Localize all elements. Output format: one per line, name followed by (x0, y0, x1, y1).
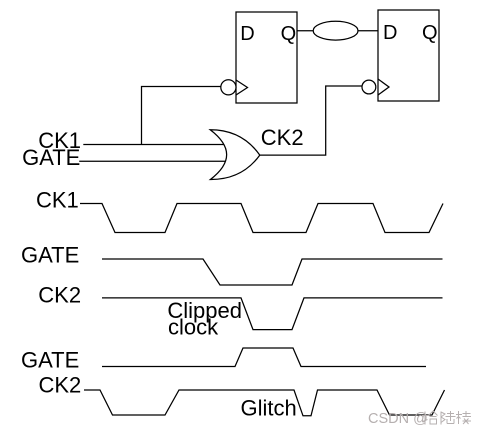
svg-text:D: D (383, 22, 397, 44)
svg-text:clock: clock (168, 315, 219, 340)
waveform GATE row4 (102, 348, 426, 367)
svg-text:CK2: CK2 (39, 373, 82, 398)
waveform GATE row2 (102, 259, 443, 285)
svg-text:Q: Q (422, 22, 438, 44)
wire GATE input (79, 160, 225, 162)
OR gate G1 (210, 130, 260, 180)
svg-text:GATE: GATE (22, 145, 80, 170)
watermark glyph lou (456, 411, 471, 424)
clock edge triangle U1 (236, 80, 248, 95)
svg-text:D: D (240, 23, 254, 45)
clock edge triangle U2 (378, 79, 389, 95)
flip-flop U2 box (378, 10, 439, 101)
waveform CK1 row1 (80, 204, 443, 233)
watermark glyph lu (441, 411, 456, 425)
svg-text:Q: Q (281, 23, 297, 45)
svg-text:GATE: GATE (21, 243, 79, 268)
clock bubble U2 (362, 80, 376, 94)
wire Q1 to ellipse (297, 30, 314, 32)
flip-flop U1 box (236, 12, 297, 103)
svg-text:CSDN @: CSDN @ (368, 411, 428, 427)
waveform CK2 row5 (84, 390, 445, 416)
wire to U1 clock (142, 87, 221, 145)
wire OR output to U2 clock (260, 86, 363, 155)
svg-text:CK2: CK2 (38, 283, 81, 308)
svg-text:CK1: CK1 (36, 188, 79, 213)
clock bubble U1 (221, 80, 236, 95)
svg-text:CK2: CK2 (261, 125, 304, 150)
waveform CK2 row3 (102, 298, 443, 330)
wire CK1 input (83, 144, 224, 146)
wire ellipse to D2 (358, 30, 378, 32)
watermark glyph shi (422, 411, 438, 425)
svg-text:Glitch: Glitch (241, 396, 297, 421)
net ellipse marker (313, 21, 358, 40)
svg-text:GATE: GATE (21, 348, 79, 373)
